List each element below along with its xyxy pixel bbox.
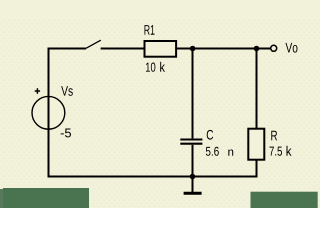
value 10 k xyxy=(146,63,156,72)
plus sign xyxy=(35,88,40,93)
junction node at ground xyxy=(190,174,196,180)
value 7.5 k xyxy=(270,147,283,156)
label Vs xyxy=(61,86,73,96)
wire: left vertical (source branch) xyxy=(48,48,50,178)
capacitor C bottom plate xyxy=(180,143,202,145)
junction node at R1/C xyxy=(190,46,196,52)
value 5.6 n xyxy=(206,147,219,156)
wire: switch right contact to R1 xyxy=(101,48,144,50)
green block left xyxy=(3,188,89,208)
wire: right branch down to resistor R xyxy=(256,49,258,129)
label Vo xyxy=(286,43,298,53)
junction node at R branch xyxy=(254,46,260,52)
green block right xyxy=(251,192,318,208)
ground bar xyxy=(184,192,202,195)
green block left edge sliver xyxy=(0,189,3,208)
wire through source xyxy=(48,96,50,130)
wire: top horizontal to switch left contact xyxy=(48,48,87,50)
label R1 xyxy=(145,25,155,35)
value -5 xyxy=(61,129,71,138)
wire: junction down to capacitor xyxy=(192,49,194,139)
wire: bottom rail xyxy=(48,176,258,178)
label R xyxy=(271,131,277,141)
label C xyxy=(207,130,214,140)
switch blade (open) xyxy=(86,40,101,48)
resistor R1 body xyxy=(145,41,177,57)
wire: capacitor to ground rail xyxy=(192,145,194,177)
voltage source Vs circle xyxy=(32,96,65,129)
output terminal Vo (open circle) xyxy=(271,45,277,51)
capacitor C top plate xyxy=(180,138,202,140)
ground stem xyxy=(192,177,194,193)
resistor R body xyxy=(248,129,264,160)
wire: R1 to output terminal xyxy=(176,48,271,50)
wire: R down to bottom rail xyxy=(256,160,258,178)
